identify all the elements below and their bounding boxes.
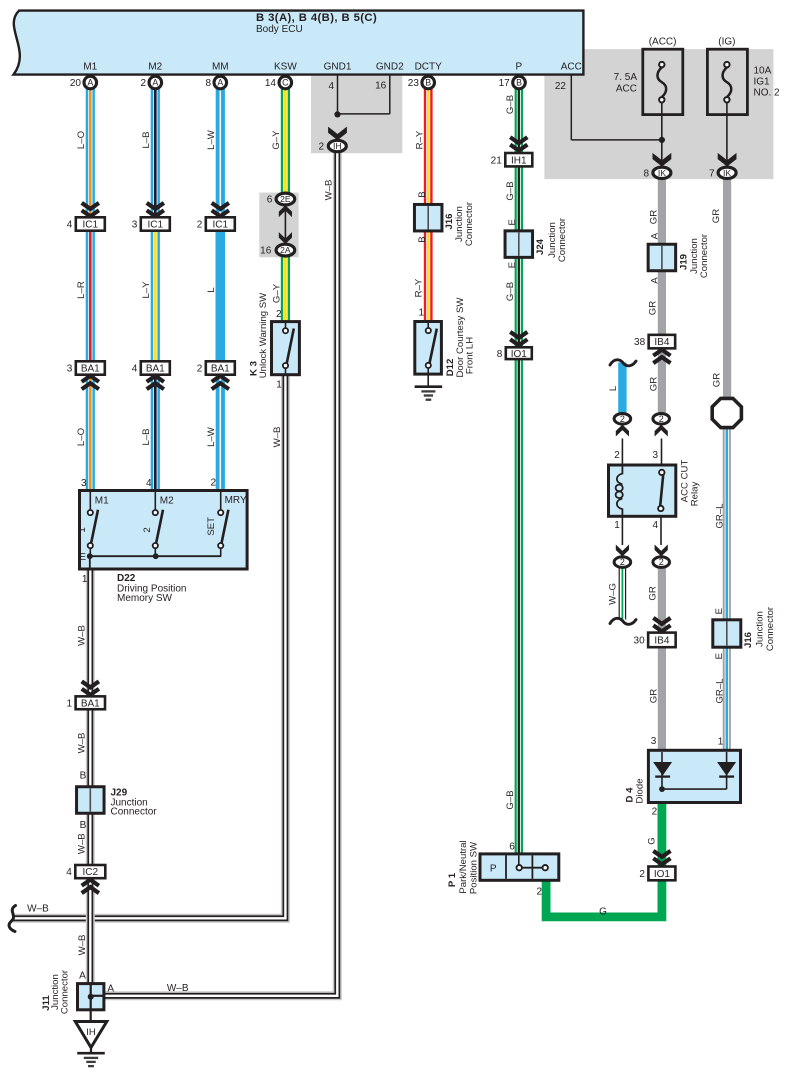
svg-text:J16: J16 <box>743 632 754 648</box>
svg-text:J19: J19 <box>678 254 689 270</box>
svg-text:B: B <box>80 771 87 782</box>
svg-text:IH: IH <box>333 141 342 151</box>
svg-text:GR: GR <box>711 209 722 223</box>
svg-text:ACC: ACC <box>561 62 582 73</box>
svg-text:1: 1 <box>67 698 73 709</box>
svg-text:ACC: ACC <box>616 84 637 95</box>
svg-text:Memory SW: Memory SW <box>117 593 173 604</box>
svg-text:BA1: BA1 <box>81 364 100 375</box>
svg-text:2: 2 <box>659 414 664 424</box>
svg-text:NO. 2: NO. 2 <box>754 88 781 99</box>
svg-text:Connector: Connector <box>111 807 158 818</box>
svg-text:GR: GR <box>648 689 659 703</box>
svg-text:7: 7 <box>709 168 715 179</box>
svg-text:Relay: Relay <box>690 482 701 507</box>
svg-text:GR: GR <box>711 373 722 387</box>
svg-text:Connector: Connector <box>765 606 776 651</box>
svg-text:A: A <box>217 78 223 88</box>
svg-text:B: B <box>80 820 87 831</box>
svg-text:4: 4 <box>328 81 334 92</box>
svg-text:20: 20 <box>70 78 82 89</box>
svg-text:Unlock Warning SW: Unlock Warning SW <box>258 292 269 378</box>
svg-text:IH1: IH1 <box>511 155 527 166</box>
svg-text:14: 14 <box>265 78 277 89</box>
svg-text:G–Y: G–Y <box>271 283 282 303</box>
svg-text:G–B: G–B <box>505 282 516 301</box>
svg-text:Front LH: Front LH <box>465 337 476 374</box>
svg-text:2: 2 <box>659 557 664 567</box>
svg-text:W–B: W–B <box>76 733 87 754</box>
svg-text:IC1: IC1 <box>83 220 99 231</box>
svg-text:L–Y: L–Y <box>141 281 152 299</box>
svg-text:3: 3 <box>652 450 658 461</box>
svg-text:2: 2 <box>318 142 324 153</box>
svg-text:7. 5A: 7. 5A <box>614 72 638 83</box>
svg-text:30: 30 <box>634 636 646 647</box>
svg-text:B: B <box>425 78 431 88</box>
svg-text:W–B: W–B <box>77 935 88 956</box>
svg-text:W–B: W–B <box>76 625 87 646</box>
svg-text:10A: 10A <box>754 66 772 77</box>
svg-text:M2: M2 <box>160 495 174 506</box>
svg-text:22: 22 <box>555 81 567 92</box>
svg-text:6: 6 <box>509 842 515 853</box>
svg-text:2: 2 <box>210 478 216 489</box>
svg-text:M2: M2 <box>148 62 162 73</box>
svg-text:W–B: W–B <box>27 904 49 915</box>
svg-text:G–B: G–B <box>505 790 516 809</box>
svg-text:A: A <box>107 984 114 995</box>
svg-text:IG1: IG1 <box>754 77 771 88</box>
svg-text:38: 38 <box>634 337 646 348</box>
svg-text:MRY: MRY <box>225 495 247 506</box>
svg-text:2: 2 <box>536 887 542 898</box>
svg-text:1: 1 <box>614 520 620 531</box>
svg-text:L–B: L–B <box>141 428 152 445</box>
svg-text:L–O: L–O <box>76 428 87 446</box>
svg-text:IO1: IO1 <box>511 349 528 360</box>
svg-text:BA1: BA1 <box>146 364 165 375</box>
svg-text:2A: 2A <box>280 245 291 255</box>
svg-text:GR: GR <box>648 586 659 600</box>
svg-text:J24: J24 <box>535 238 546 255</box>
svg-text:8: 8 <box>205 78 211 89</box>
svg-text:Position SW: Position SW <box>468 841 479 894</box>
svg-text:Connector: Connector <box>557 217 568 262</box>
svg-text:1: 1 <box>276 379 282 390</box>
svg-text:IO1: IO1 <box>654 869 671 880</box>
svg-text:16: 16 <box>375 80 387 91</box>
svg-text:1: 1 <box>718 737 724 748</box>
svg-text:GND2: GND2 <box>376 62 404 73</box>
svg-text:W–B: W–B <box>323 180 334 201</box>
svg-text:4: 4 <box>652 520 658 531</box>
svg-text:W–B: W–B <box>272 427 283 448</box>
svg-text:L–O: L–O <box>76 131 87 149</box>
svg-text:B: B <box>516 78 522 88</box>
svg-text:1: 1 <box>82 574 88 585</box>
svg-text:E: E <box>507 219 518 225</box>
svg-text:21: 21 <box>491 155 503 166</box>
svg-text:A: A <box>650 277 661 284</box>
svg-text:(IG): (IG) <box>718 37 735 48</box>
svg-text:E: E <box>714 653 725 659</box>
svg-text:IC2: IC2 <box>83 867 99 878</box>
svg-text:R–Y: R–Y <box>414 130 425 149</box>
svg-text:SET: SET <box>206 517 217 536</box>
svg-text:Connector: Connector <box>699 233 710 278</box>
svg-text:IC1: IC1 <box>148 220 164 231</box>
svg-text:KSW: KSW <box>274 62 297 73</box>
svg-text:GR: GR <box>648 210 659 224</box>
svg-text:Diode: Diode <box>634 778 645 803</box>
svg-text:MM: MM <box>212 62 229 73</box>
svg-text:L–B: L–B <box>141 131 152 148</box>
svg-text:4: 4 <box>132 364 138 375</box>
svg-text:E: E <box>79 552 86 563</box>
svg-text:2: 2 <box>652 807 658 818</box>
svg-text:E: E <box>507 262 518 268</box>
svg-text:W–B: W–B <box>167 983 189 994</box>
svg-text:GR: GR <box>648 377 659 391</box>
svg-text:IH: IH <box>86 1027 96 1038</box>
svg-text:G: G <box>599 906 607 917</box>
svg-text:P: P <box>490 863 497 874</box>
svg-text:2: 2 <box>142 527 153 532</box>
svg-text:4: 4 <box>146 478 152 489</box>
svg-text:2: 2 <box>276 309 282 320</box>
svg-text:IK: IK <box>658 168 666 178</box>
svg-text:(ACC): (ACC) <box>649 37 677 48</box>
svg-text:3: 3 <box>81 478 87 489</box>
svg-text:B: B <box>417 236 428 242</box>
svg-text:3: 3 <box>132 220 138 231</box>
svg-text:17: 17 <box>499 78 511 89</box>
svg-text:2: 2 <box>620 414 625 424</box>
svg-text:G: G <box>646 837 657 844</box>
svg-text:GR–L: GR–L <box>714 678 725 704</box>
svg-text:C: C <box>282 78 289 88</box>
svg-text:3: 3 <box>651 736 657 747</box>
svg-text:A: A <box>87 78 93 88</box>
svg-text:1: 1 <box>77 527 88 532</box>
svg-text:L: L <box>608 385 619 391</box>
svg-text:2: 2 <box>140 78 146 89</box>
svg-text:BA1: BA1 <box>81 698 100 709</box>
svg-text:GR–L: GR–L <box>714 503 725 529</box>
svg-text:IC1: IC1 <box>213 220 229 231</box>
svg-text:P: P <box>515 62 522 73</box>
svg-text:16: 16 <box>260 246 272 257</box>
svg-text:6: 6 <box>267 194 273 205</box>
svg-text:GND1: GND1 <box>324 62 352 73</box>
svg-text:8: 8 <box>643 168 649 179</box>
svg-text:B: B <box>417 191 428 197</box>
svg-text:E: E <box>714 608 725 614</box>
svg-text:IB4: IB4 <box>654 337 669 348</box>
svg-text:B 3(A), B 4(B), B 5(C): B 3(A), B 4(B), B 5(C) <box>256 12 377 24</box>
svg-text:Body ECU: Body ECU <box>256 24 303 35</box>
svg-text:DCTY: DCTY <box>415 62 443 73</box>
svg-text:23: 23 <box>408 78 420 89</box>
svg-text:A: A <box>152 78 158 88</box>
svg-text:L–W: L–W <box>206 426 217 447</box>
svg-text:A: A <box>79 970 86 981</box>
svg-text:2: 2 <box>197 364 203 375</box>
svg-text:4: 4 <box>66 867 72 878</box>
svg-text:2: 2 <box>620 557 625 567</box>
svg-text:L–W: L–W <box>206 129 217 150</box>
svg-text:M1: M1 <box>95 495 109 506</box>
svg-text:2: 2 <box>197 220 203 231</box>
svg-text:2: 2 <box>639 869 645 880</box>
svg-text:3: 3 <box>67 364 73 375</box>
svg-text:Connector: Connector <box>464 201 475 246</box>
svg-text:P 1: P 1 <box>447 872 458 887</box>
svg-text:2: 2 <box>614 450 620 461</box>
svg-text:W–B: W–B <box>76 833 87 854</box>
svg-text:R–Y: R–Y <box>413 278 424 297</box>
svg-text:L–R: L–R <box>76 281 87 299</box>
svg-text:2E: 2E <box>280 194 291 204</box>
svg-text:G–B: G–B <box>505 181 516 200</box>
svg-text:8: 8 <box>497 349 503 360</box>
svg-text:BA1: BA1 <box>211 364 230 375</box>
svg-text:4: 4 <box>67 220 73 231</box>
svg-text:GR: GR <box>647 301 658 315</box>
svg-text:M1: M1 <box>83 62 97 73</box>
svg-text:IB4: IB4 <box>654 636 669 647</box>
svg-text:L: L <box>206 287 217 293</box>
svg-text:1: 1 <box>418 308 424 319</box>
svg-text:Junction: Junction <box>754 611 765 647</box>
svg-text:G–Y: G–Y <box>271 130 282 150</box>
svg-text:G–B: G–B <box>505 95 516 114</box>
svg-text:IK: IK <box>723 168 731 178</box>
svg-text:W–G: W–G <box>608 583 619 605</box>
svg-text:A: A <box>650 232 661 239</box>
svg-text:Connector: Connector <box>60 969 71 1014</box>
